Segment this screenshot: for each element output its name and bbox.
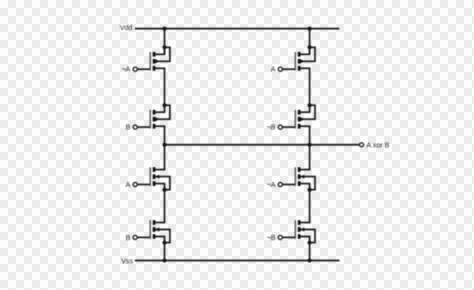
svg-text:¬A: ¬A	[122, 66, 131, 74]
wire Q1 drain to Q2 source	[164, 68, 166, 105]
output terminal	[360, 143, 364, 147]
transistor Q6	[282, 103, 315, 128]
wire Q2 drain to output node	[164, 126, 166, 145]
svg-text:B: B	[126, 124, 131, 132]
input terminal NOT-A (Q7 gate)	[278, 182, 282, 186]
input terminal NOT-B (Q8 gate)	[278, 235, 282, 239]
transistor Q3	[137, 167, 170, 191]
input terminal B (Q2 gate)	[133, 125, 137, 129]
transistor Q5	[282, 45, 315, 70]
transistor Q4	[137, 220, 170, 244]
junction dot on Vdd rail (Q1 branch)	[163, 27, 167, 31]
input terminal NOT-B (Q6 gate)	[278, 125, 282, 129]
svg-text:¬A: ¬A	[267, 181, 276, 189]
input terminal B (Q4 gate)	[133, 235, 137, 239]
junction dot on output net	[163, 143, 167, 147]
wire Q7 source to Q8 drain	[309, 190, 311, 223]
output net wire (A xor B)	[165, 144, 360, 146]
junction dot on Vss rail	[163, 259, 167, 263]
transistor Q2	[137, 103, 170, 128]
wire Q4 source down to Vss rail	[164, 243, 166, 261]
input terminal A (Q3 gate)	[133, 182, 137, 186]
svg-text:B: B	[126, 234, 131, 242]
svg-text:A xor B: A xor B	[367, 142, 390, 150]
wire Vdd rail down to Q5 source	[309, 29, 311, 55]
svg-text:¬B: ¬B	[267, 234, 276, 242]
transistor Q8	[282, 220, 315, 244]
svg-text:Vss: Vss	[121, 257, 133, 265]
input terminal NOT-A (Q1 gate)	[133, 67, 137, 71]
svg-text:A: A	[271, 66, 276, 74]
wire Q6 drain to output node	[309, 126, 311, 145]
svg-text:Vdd: Vdd	[120, 24, 133, 32]
wire Q3 source to Q4 drain	[164, 190, 166, 223]
Vdd power rail	[135, 28, 339, 30]
wire output node down to Q3 drain	[164, 145, 166, 170]
wire Vdd rail down to Q1 source	[164, 29, 166, 55]
wire output node down to Q7 drain	[309, 145, 311, 170]
wire Q8 source down to Vss rail	[309, 243, 311, 261]
transistor Q1	[137, 45, 170, 70]
junction dot on Vdd rail (Q5 branch)	[308, 27, 312, 31]
wire Q5 drain to Q6 source	[309, 68, 311, 105]
junction dot on Vss rail	[308, 259, 312, 263]
Vss power rail	[135, 260, 340, 262]
junction dot on output net	[308, 143, 312, 147]
svg-text:¬B: ¬B	[267, 124, 276, 132]
transistor Q7	[282, 167, 315, 191]
input terminal A (Q5 gate)	[278, 67, 282, 71]
svg-text:A: A	[126, 181, 131, 189]
